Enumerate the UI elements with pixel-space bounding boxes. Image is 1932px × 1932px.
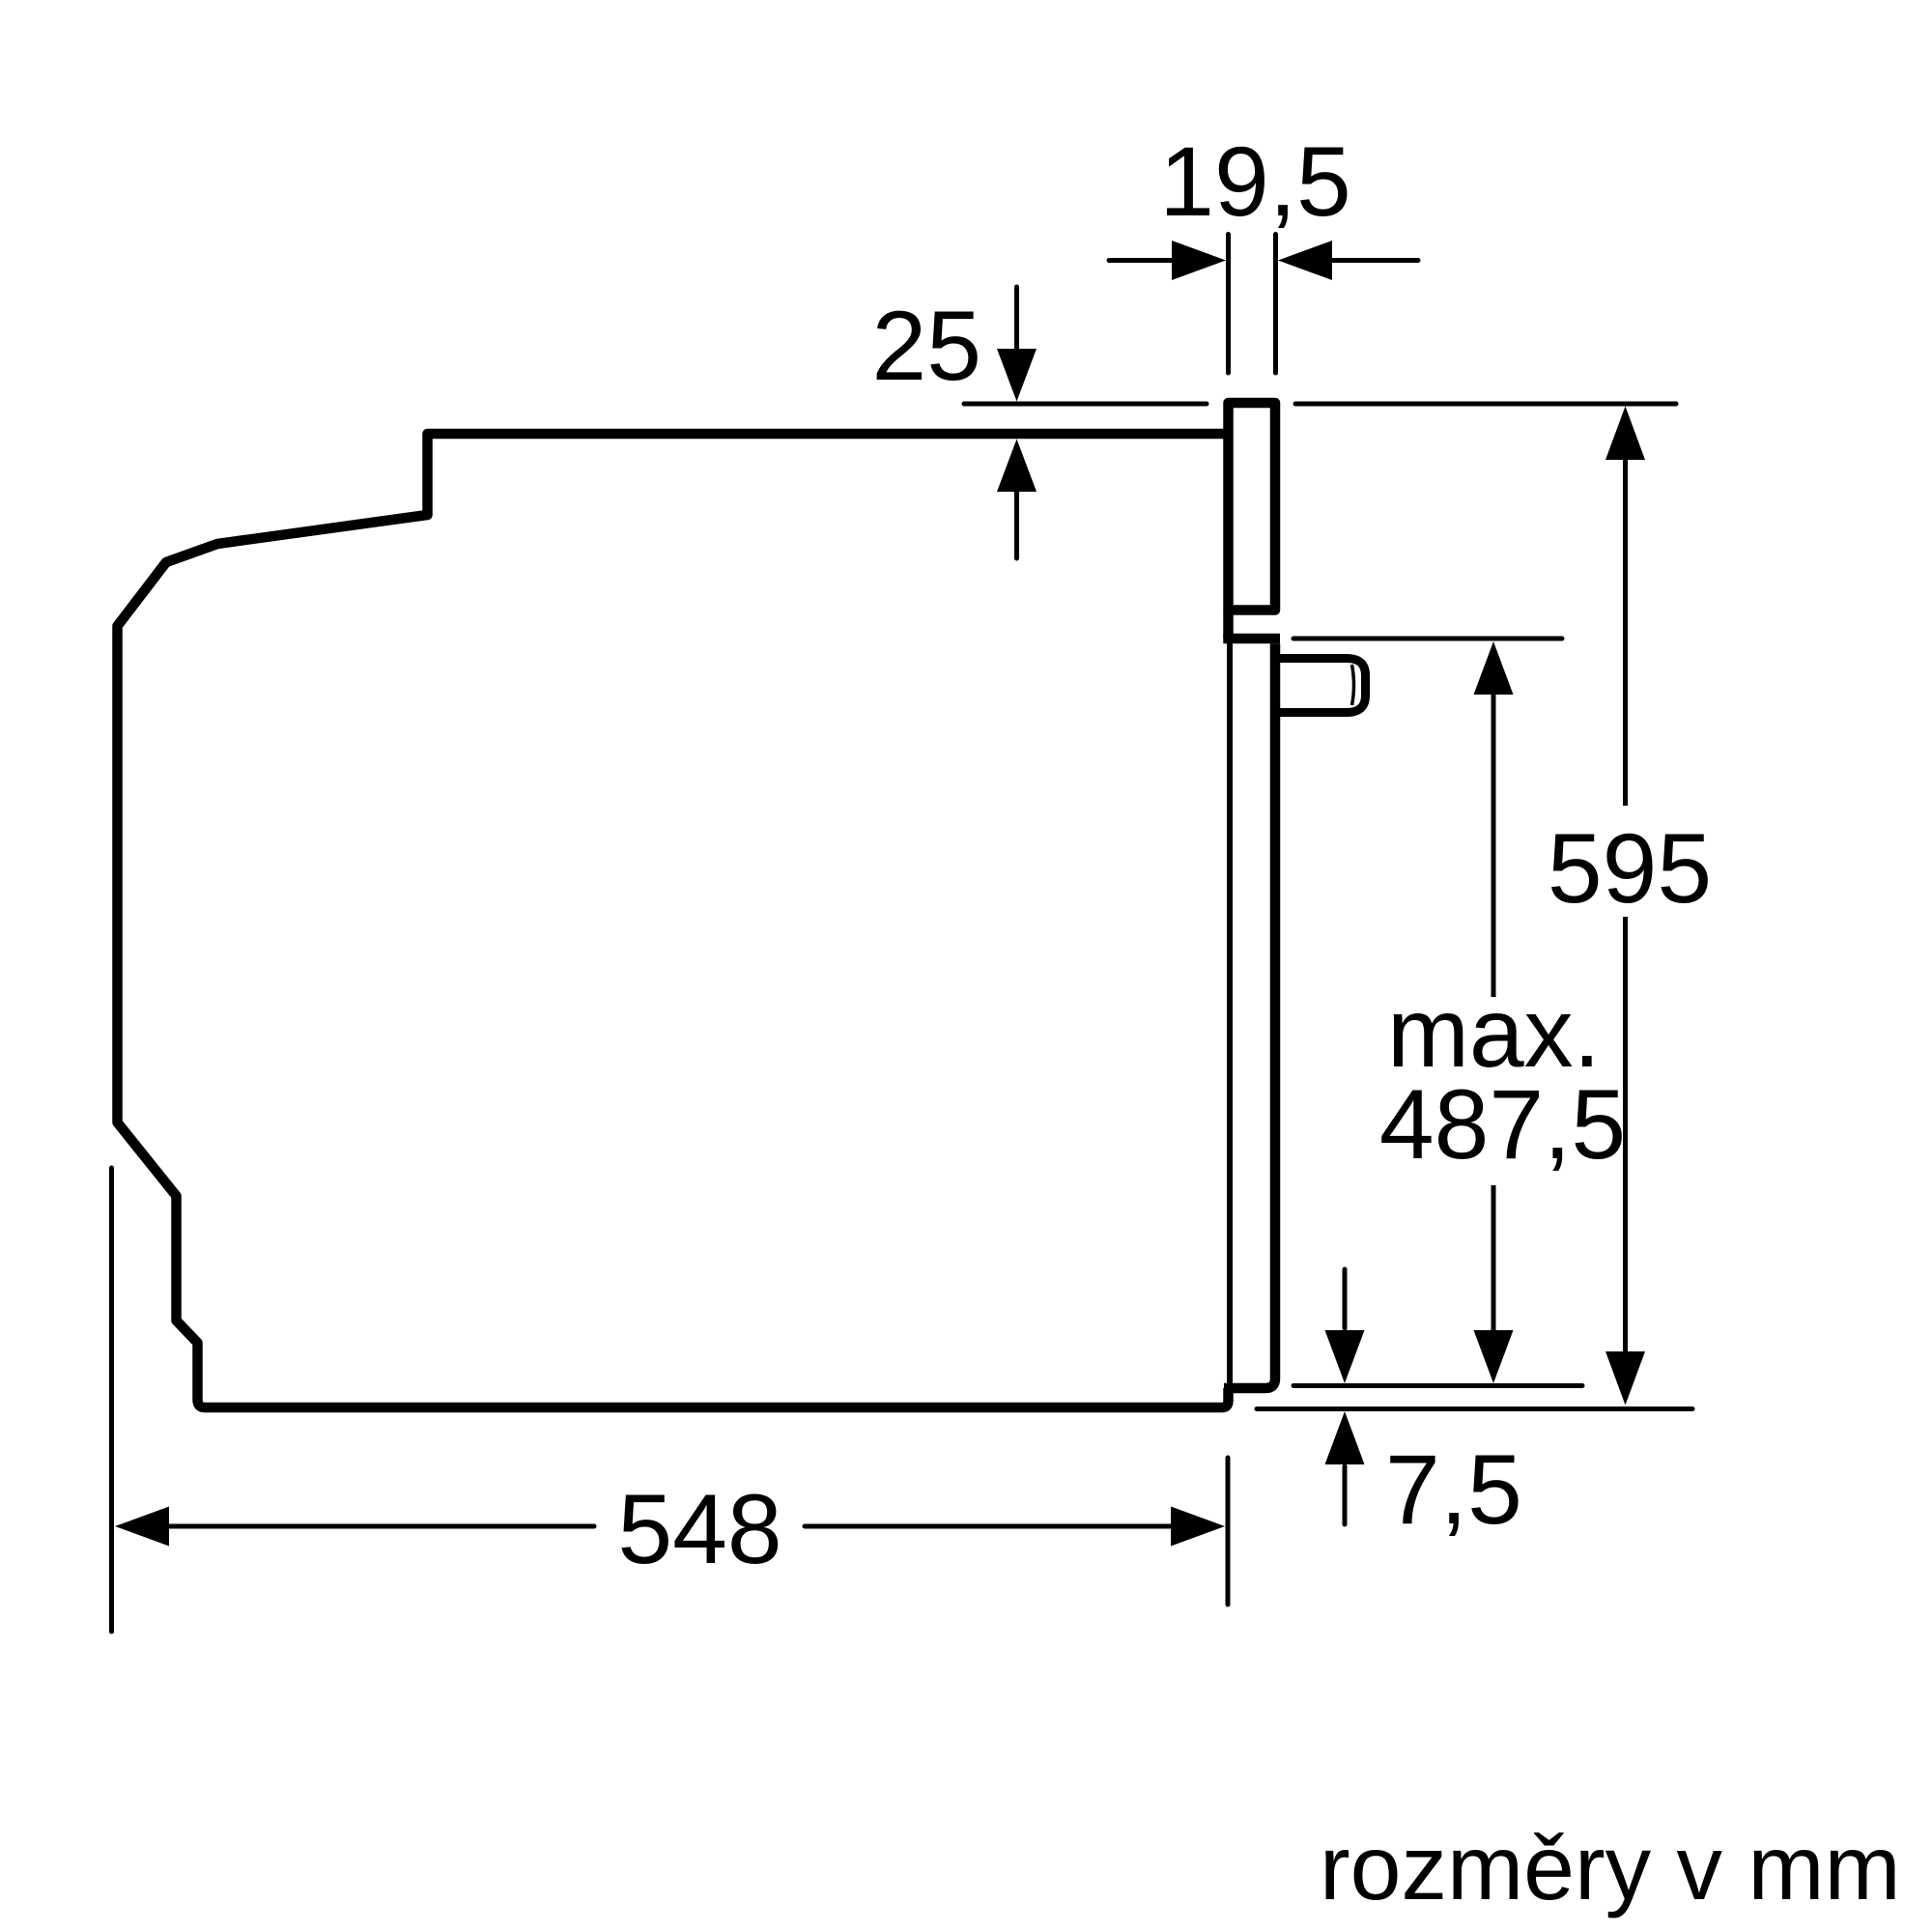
svg-text:548: 548 [617,1474,781,1584]
svg-text:25: 25 [872,291,981,401]
svg-text:487,5: 487,5 [1379,1069,1626,1179]
svg-text:595: 595 [1548,813,1712,923]
svg-text:19,5: 19,5 [1159,127,1351,237]
svg-text:7,5: 7,5 [1385,1435,1522,1545]
svg-text:rozměry v mm: rozměry v mm [1320,1817,1901,1919]
